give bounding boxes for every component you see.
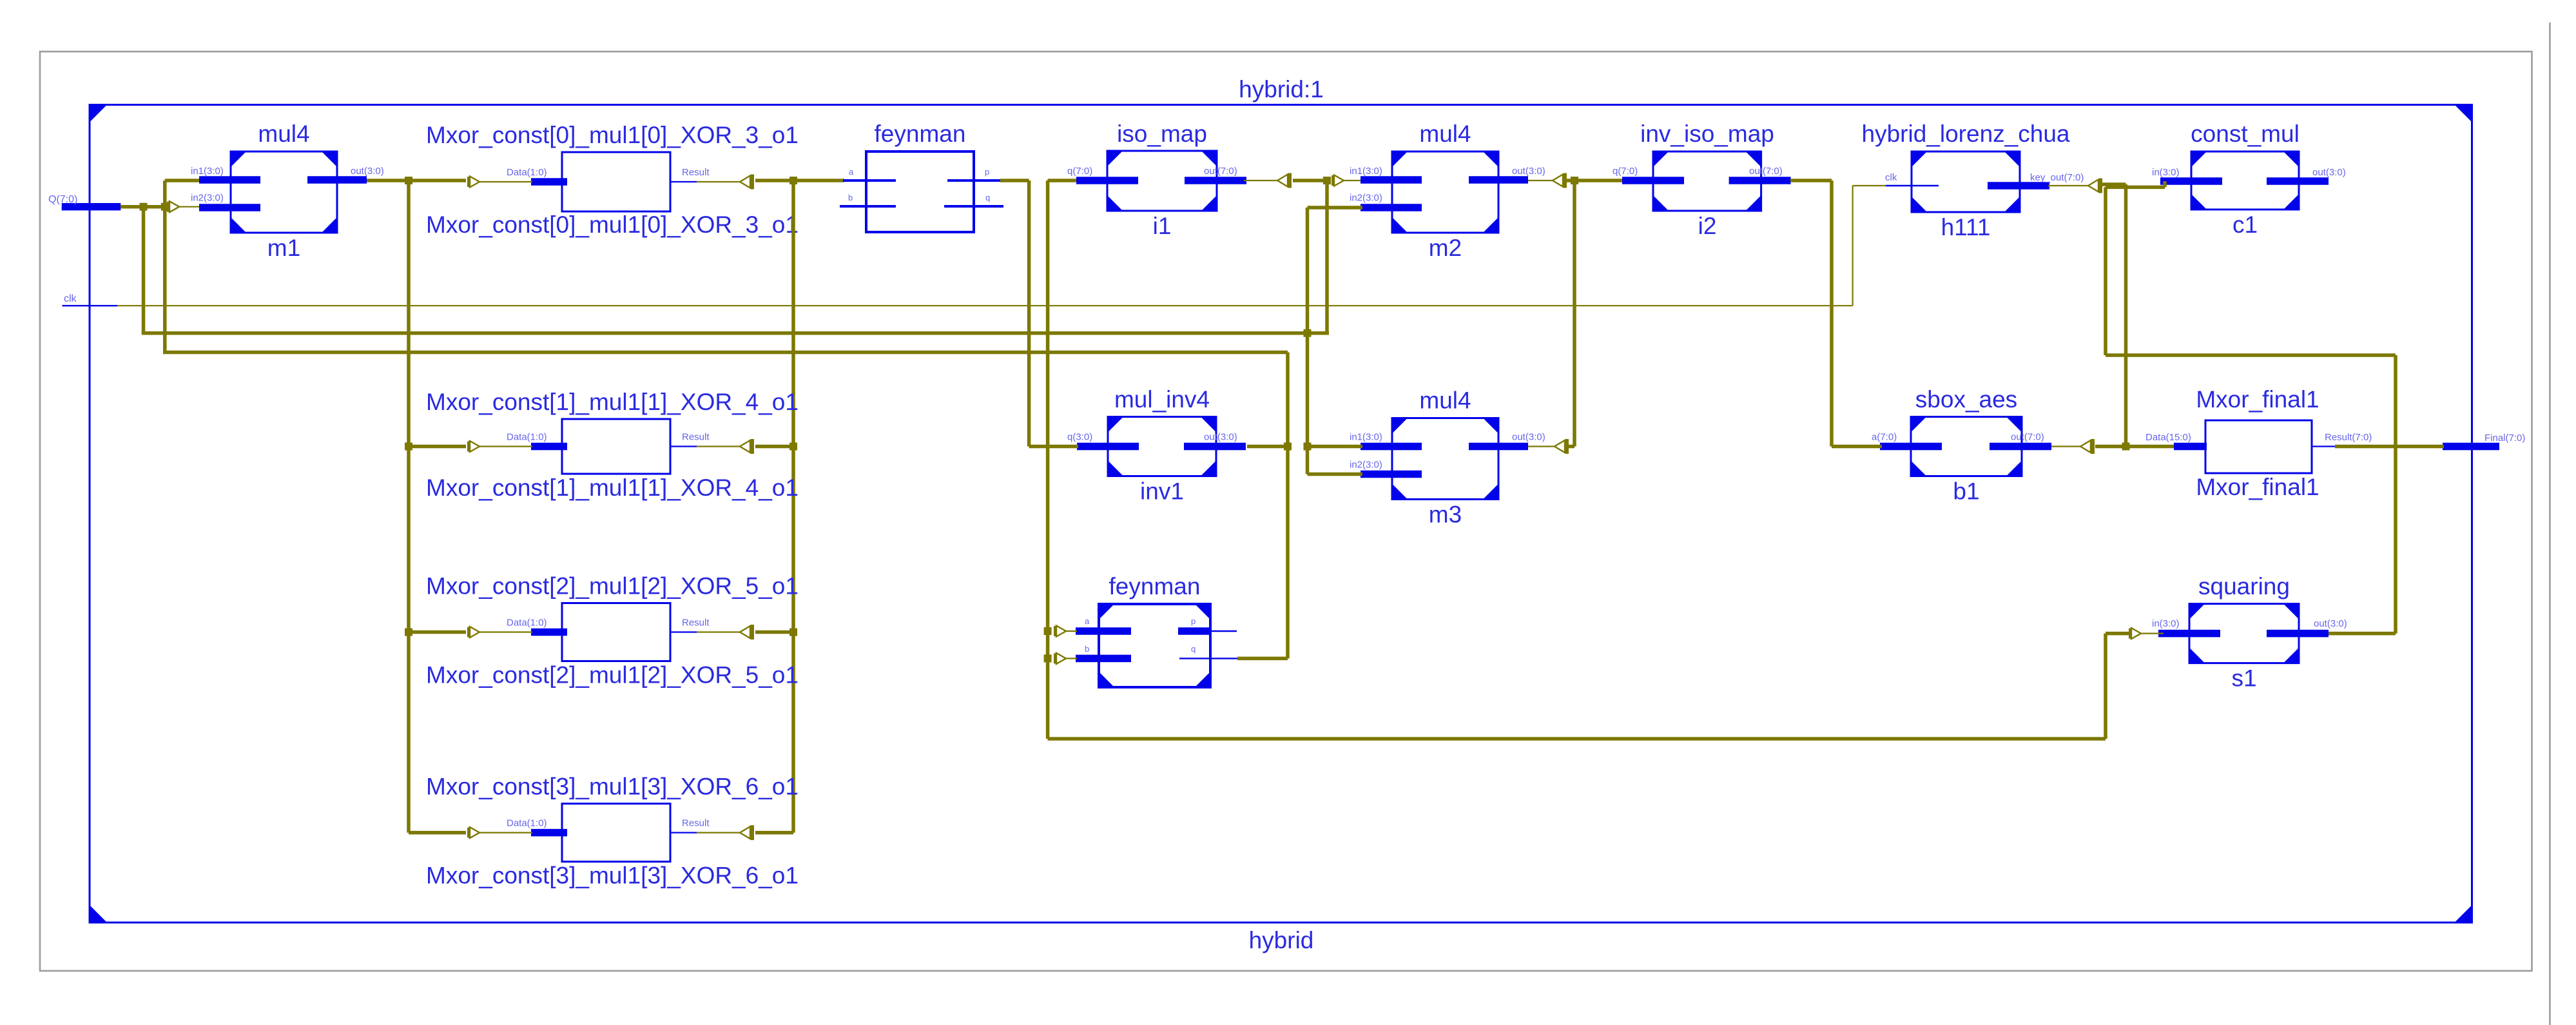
svg-text:out(3:0): out(3:0) [2312,167,2346,178]
pin label XOR_6.Data [507,818,547,829]
wire vertical s1 net up [2104,187,2107,355]
svg-text:m3: m3 [1429,502,1462,528]
module hybrid boundary box [90,105,2472,923]
label i1 [1153,213,1172,239]
svg-text:Mxor_const[3]_mul1[3]_XOR_6_o1: Mxor_const[3]_mul1[3]_XOR_6_o1 [426,863,799,889]
pin label XOR_5.Data [507,618,547,629]
svg-text:Mxor_const[0]_mul1[0]_XOR_3_o1: Mxor_const[0]_mul1[0]_XOR_3_o1 [426,122,799,148]
wire vertical m2.in2/m3 feed [1306,208,1310,474]
component Mxor_const[1] XOR_4 block [531,419,670,474]
junction feynman2.a tap [1044,627,1052,635]
wire m2.in2 feed [1308,206,1363,210]
wire arrow to feynman2.b [1066,658,1077,659]
pin label feynman2.q [1191,644,1196,654]
svg-text:hybrid: hybrid [1249,927,1314,953]
pin label m2.out [1512,166,1545,177]
pin stub feynman.q [944,205,1003,208]
component h111 (hybrid_lorenz_chua) [1912,151,2049,212]
svg-text:Result: Result [682,818,710,829]
component s1 (squaring) [2158,604,2329,663]
wire s1.in feed [2106,632,2129,636]
svg-text:in1(3:0): in1(3:0) [1350,166,1382,177]
wire XOR_6 data feed [409,831,466,835]
svg-text:m2: m2 [1429,235,1462,261]
svg-text:p: p [985,167,989,177]
svg-text:Mxor_const[2]_mul1[2]_XOR_5_o1: Mxor_const[2]_mul1[2]_XOR_5_o1 [426,662,799,688]
connector arrow from i1.out [1277,173,1292,188]
pin label XOR_4.Result [682,432,710,443]
label const_mul [2191,121,2300,147]
wire sbox.out to Mxor_final1.Data [2095,445,2175,449]
pin label XOR_5.Result [682,618,710,629]
port Q(7:0) bus stub [62,203,121,211]
wire arrow to feynman2.a [1066,630,1077,632]
wire m3.in2 feed [1308,473,1363,476]
label iso_map [1117,121,1207,147]
wire XOR_3.Result stub [670,181,697,182]
pin label feynman.a [849,167,854,177]
wire busA horizontal [142,331,1329,335]
pin label m1.in1 [191,166,224,177]
svg-text:Mxor_const[2]_mul1[2]_XOR_5_o1: Mxor_const[2]_mul1[2]_XOR_5_o1 [426,573,799,600]
svg-text:out(3:0): out(3:0) [1512,166,1545,177]
label sbox_aes [1915,386,2017,413]
wire into i1.q [1048,179,1078,182]
junction XOR_4 result tap [789,443,797,451]
label m3 [1429,502,1462,528]
svg-text:out(3:0): out(3:0) [351,166,384,177]
svg-text:in2(3:0): in2(3:0) [1350,460,1382,471]
svg-text:const_mul: const_mul [2191,121,2300,147]
wire vertical m2.out to m3.out [1573,181,1576,447]
svg-text:i1: i1 [1153,213,1172,239]
svg-text:Final(7:0): Final(7:0) [2484,433,2525,444]
junction inv1.out tap [1284,443,1292,451]
wire vertical i2.out to sbox.a [1830,181,1834,447]
wire vertical m1.out bus [407,181,411,833]
wire XOR_5.Result lead [697,631,741,632]
connector arrow into feynman2.b [1054,653,1066,664]
wire bottom bus horizontal [1048,737,2106,741]
component b1 (sbox_aes) [1880,417,2051,476]
junction XOR_4 data tap [405,443,412,451]
svg-text:Mxor_const[3]_mul1[3]_XOR_6_o1: Mxor_const[3]_mul1[3]_XOR_6_o1 [426,774,799,800]
pin label inv1.q [1067,432,1092,443]
pin stub feynman2.p [1212,630,1237,632]
svg-text:inv_iso_map: inv_iso_map [1640,121,1774,147]
wire m3.out to corner [1567,445,1574,449]
label mul_inv4 [1114,386,1210,413]
wire i1.out lead [1244,180,1278,181]
connector arrow into XOR_5.Data [467,627,479,638]
wire vertical key_out down [2124,184,2128,447]
pin label m1.in2 [191,193,224,204]
wire key_out to corner [2102,182,2126,186]
wire feynman.p out [1000,179,1029,182]
wire XOR_4.Result lead [697,445,741,447]
wire i1.out to m2.in1 [1293,179,1328,182]
svg-text:p: p [1191,616,1196,626]
svg-text:m1: m1 [267,235,300,261]
svg-text:mul_inv4: mul_inv4 [1114,386,1210,413]
wire clk lead to h111 [1853,185,1886,186]
svg-text:squaring: squaring [2198,573,2290,600]
svg-text:Data(15:0): Data(15:0) [2145,432,2191,443]
junction Q net at x222 [140,203,148,211]
svg-text:in(3:0): in(3:0) [2152,167,2180,178]
svg-text:s1: s1 [2231,665,2256,692]
junction key_out join [2122,443,2130,451]
wire vertical bottom bus to s1.in [2104,634,2107,739]
wire m1.in1 feed [165,179,200,182]
svg-text:Mxor_final1: Mxor_final1 [2196,474,2319,500]
wire vertical s1 net down [2394,355,2397,634]
wire m2.out lead [1528,180,1553,181]
wire vertical m1.in1 to busB [163,181,167,353]
connector arrow into XOR_3.Data [467,177,479,188]
pin label m2.in1 [1350,166,1382,177]
svg-text:iso_map: iso_map [1117,121,1207,147]
pin label inv1.out [1204,432,1237,443]
label XOR_5 instance [426,662,799,688]
component Mxor_final1 [2174,420,2312,473]
wire vertical XOR results bus [791,181,795,833]
label b1 [1953,478,1979,505]
wire m2.out to i2.q [1565,179,1623,182]
connector arrow into XOR_6.Data [467,827,479,838]
wire sbox.out lead [2051,445,2081,447]
pin label c1.in [2152,167,2180,178]
pin label feynman.q [985,193,990,202]
svg-text:Data(1:0): Data(1:0) [507,167,547,178]
pin label feynman2.b [1085,644,1089,654]
component i1 (iso_map) [1076,151,1246,211]
svg-text:q(7:0): q(7:0) [1067,166,1092,177]
pin label m3.in2 [1350,460,1382,471]
component m2 (mul4) [1361,151,1528,233]
wire XOR_3.Result lead [697,181,741,182]
wire XOR_4 data feed [409,445,466,449]
component c1 (const_mul) [2160,151,2329,210]
wire c1.in jog [2163,181,2167,187]
junction m3.in1 tap [1304,443,1312,451]
svg-text:a(7:0): a(7:0) [1872,432,1897,443]
junction XOR_5 data tap [405,629,412,636]
label mul4 above m3 [1419,387,1471,414]
svg-text:out(7:0): out(7:0) [1204,166,1237,177]
svg-text:Mxor_const[1]_mul1[1]_XOR_4_o1: Mxor_const[1]_mul1[1]_XOR_4_o1 [426,389,799,415]
svg-text:out(3:0): out(3:0) [1512,432,1545,443]
pin label Mxor_final1.Data [2145,432,2191,443]
wire inv1.out right [1247,445,1288,449]
component i2 (inv_iso_map) [1622,151,1791,211]
connector arrow from m2.out [1553,173,1567,188]
port Q(7:0) label [48,194,77,205]
svg-text:Result: Result [682,432,710,443]
junction m2.in1 tap [1323,177,1331,184]
component feynman (top) [866,151,974,232]
port clk label [64,293,77,304]
wire XOR_6.Result stub [670,832,697,833]
connector arrow from sbox.out [2080,439,2095,454]
pin label i1.out [1204,166,1237,177]
wire XOR_5.Result stub [670,631,697,632]
wire feynman2.q out [1237,657,1288,661]
pin label m3.out [1512,432,1545,443]
label s1 [2231,665,2256,692]
label feynman bottom [1109,573,1201,600]
label m2 [1429,235,1462,261]
svg-text:out(7:0): out(7:0) [1749,166,1783,177]
svg-text:in1(3:0): in1(3:0) [1350,432,1382,443]
junction busA tap [1304,329,1312,337]
wire i2.out right [1790,179,1832,182]
svg-text:sbox_aes: sbox_aes [1915,386,2017,413]
right window divider line [2549,23,2551,1025]
component inv1 (mul_inv4) [1077,417,1246,476]
svg-text:Data(1:0): Data(1:0) [507,432,547,443]
pin label feynman2.a [1085,616,1090,626]
label hybrid_lorenz_chua [1862,121,2070,147]
port Final(7:0) bus stub [2443,443,2499,451]
port clk stub [63,305,118,306]
wire m3.out lead [1528,445,1555,447]
label mul4 above m2 [1419,121,1471,147]
connector arrow from m3.out [1554,439,1569,454]
label feynman above [875,121,966,147]
label c1 [2232,211,2258,238]
component Mxor_const[3] XOR_6 block [531,804,670,862]
label squaring [2198,573,2290,600]
svg-text:Data(1:0): Data(1:0) [507,618,547,629]
label XOR_4 type [426,389,799,415]
wire clk vertical [1852,186,1854,306]
wire m3.in1 feed [1308,445,1363,449]
wire h111.key_out lead [2048,185,2089,186]
wire Q bus to m1 [121,205,169,209]
svg-text:in(3:0): in(3:0) [2152,618,2180,629]
svg-text:in1(3:0): in1(3:0) [191,166,224,177]
junction feynman2.b tap [1044,654,1052,662]
svg-text:feynman: feynman [1109,573,1201,600]
svg-text:Result(7:0): Result(7:0) [2325,432,2372,443]
wire Result to Final port [2335,445,2444,449]
label h111 [1941,214,1991,240]
svg-text:hybrid_lorenz_chua: hybrid_lorenz_chua [1862,121,2070,147]
wire XOR_3.Result to feynman.a [755,179,844,182]
pin stub feynman.a [843,179,896,182]
pin label XOR_6.Result [682,818,710,829]
wire vertical busB to feynman2.q [1286,353,1290,659]
svg-text:key_out(7:0): key_out(7:0) [2030,172,2084,183]
pin label i2.q [1612,166,1638,177]
label Mxor_final1 type [2196,386,2319,413]
svg-text:mul4: mul4 [258,121,309,147]
pin stub feynman.p [947,179,1000,182]
svg-text:c1: c1 [2232,211,2258,238]
pin label XOR_3.Result [682,167,710,178]
wire arrow to s1.in [2141,632,2164,634]
junction XOR_5 result tap [789,629,797,636]
wire arrow to XOR_3.Data [479,181,532,182]
svg-text:q(7:0): q(7:0) [1612,166,1638,177]
pin label m2.in2 [1350,193,1382,204]
svg-text:feynman: feynman [875,121,966,147]
label XOR_6 type [426,774,799,800]
connector arrow into m2.in1 [1332,175,1344,186]
pin label sbox.out [2011,432,2044,443]
wire vertical Q to busA [142,207,146,333]
svg-text:q(3:0): q(3:0) [1067,432,1092,443]
wire XOR_6.Result lead [697,832,741,833]
wire XOR_5.Result to bus [755,630,793,634]
connector arrow from XOR_5.Result [740,625,754,639]
wire arrow to m2.in1 pin [1344,180,1364,181]
pin label m3.in1 [1350,432,1382,443]
pin stub feynman.b [840,205,896,208]
junction Q net at m1.in2 tap [161,203,169,211]
svg-text:clk: clk [1885,172,1897,183]
wire arrow to XOR_5.Data [479,631,532,632]
svg-text:Result: Result [682,167,710,178]
label XOR_3 instance [426,211,799,238]
svg-text:b1: b1 [1953,478,1979,505]
pin label feynman2.p [1191,616,1196,626]
svg-text:Mxor_final1: Mxor_final1 [2196,386,2319,413]
wire clk horizontal [117,305,1853,306]
svg-text:b: b [1085,644,1089,654]
wire XOR_4.Result stub [670,445,697,447]
label inv1 [1140,478,1184,505]
wire c1.in horizontal [2106,186,2165,190]
connector arrow into s1.in [2129,628,2141,639]
module title hybrid:1 [1239,76,1324,102]
pin label XOR_3.Data [507,167,547,178]
wire busB horizontal [163,351,1288,355]
component feynman (bottom) [1076,604,1212,687]
connector arrow into feynman2.a [1054,626,1066,637]
label XOR_5 type [426,573,799,600]
svg-text:in2(3:0): in2(3:0) [191,193,224,204]
svg-text:inv1: inv1 [1140,478,1184,505]
junction m1.out vertical tap [405,177,412,184]
svg-text:out(3:0): out(3:0) [2314,618,2347,629]
connector arrow from XOR_3.Result [740,175,754,190]
wire sbox.a feed [1832,445,1882,449]
component m3 (mul4) [1361,418,1528,500]
svg-text:a: a [1085,616,1090,626]
svg-text:hybrid:1: hybrid:1 [1239,76,1324,102]
svg-text:out(3:0): out(3:0) [1204,432,1237,443]
label XOR_3 type [426,122,799,148]
svg-text:mul4: mul4 [1419,387,1471,414]
pin label h111.clk [1885,172,1897,183]
pin label c1.out [2312,167,2346,178]
pin stub feynman2.q [1179,658,1237,659]
svg-text:b: b [848,193,853,202]
svg-text:Q(7:0): Q(7:0) [48,194,77,205]
wire vertical m2.in1 to busA [1325,181,1329,333]
wire arrow to XOR_6.Data [479,832,532,833]
connector arrow from XOR_4.Result [740,439,754,454]
label XOR_4 instance [426,474,799,501]
connector arrow from h111.key_out [2088,179,2102,193]
wire XOR_6.Result to bus [755,831,793,835]
svg-text:clk: clk [64,293,77,304]
label i2 [1698,213,1717,239]
wire s1 net horizontal [2106,353,2396,357]
pin stub h111.clk [1886,185,1939,186]
connector arrow into m1.in2 [167,201,179,212]
pin label m1.out [351,166,384,177]
module bottom label hybrid [1249,927,1314,953]
pin label XOR_4.Data [507,432,547,443]
connector arrow into XOR_4.Data [467,441,479,452]
wire s1.out right [2329,632,2396,636]
svg-text:Mxor_const[0]_mul1[0]_XOR_3_o1: Mxor_const[0]_mul1[0]_XOR_3_o1 [426,211,799,238]
component m1 (mul4) [199,151,367,233]
wire arrow to XOR_4.Data [479,445,532,447]
wire m1.out to XOR_3 [367,179,466,182]
svg-text:h111: h111 [1941,214,1991,240]
pin label feynman.p [985,167,989,177]
wire vertical feynman.p to inv1.q [1027,181,1031,447]
wire inv1.q feed [1029,445,1078,449]
junction m2.out tap [1571,177,1578,184]
wire vertical i1.q feed bus [1046,181,1050,739]
junction XOR results bus [789,177,797,184]
svg-text:q: q [1191,644,1196,654]
label mul4 above m1 [258,121,309,147]
svg-text:i2: i2 [1698,213,1717,239]
pin label feynman.b [848,193,853,202]
wire XOR_5 data feed [409,630,466,634]
port Final(7:0) label [2484,433,2525,444]
svg-text:out(7:0): out(7:0) [2011,432,2044,443]
label XOR_6 instance [426,863,799,889]
label Mxor_final1 instance [2196,474,2319,500]
wire Mxor_final1.Result stub [2312,445,2335,447]
label m1 [267,235,300,261]
label inv_iso_map [1640,121,1774,147]
pin label h111.key_out [2030,172,2084,183]
svg-text:in2(3:0): in2(3:0) [1350,193,1382,204]
wire arrow to m1.in2 pin [179,206,200,208]
svg-text:q: q [985,193,990,202]
component Mxor_const[2] XOR_5 block [531,603,670,661]
pin label i1.q [1067,166,1092,177]
pin label s1.in [2152,618,2180,629]
svg-text:mul4: mul4 [1419,121,1471,147]
svg-text:Data(1:0): Data(1:0) [507,818,547,829]
pin label sbox.a [1872,432,1897,443]
pin label Mxor_final1.Result [2325,432,2372,443]
connector arrow from XOR_6.Result [740,825,754,840]
pin label i2.out [1749,166,1783,177]
component Mxor_const[0]_mul1[0]_XOR_3_o1 [531,152,670,211]
svg-text:Result: Result [682,618,710,629]
svg-text:a: a [849,167,854,177]
pin label s1.out [2314,618,2347,629]
svg-text:Mxor_const[1]_mul1[1]_XOR_4_o1: Mxor_const[1]_mul1[1]_XOR_4_o1 [426,474,799,501]
wire XOR_4.Result to bus [755,445,793,449]
